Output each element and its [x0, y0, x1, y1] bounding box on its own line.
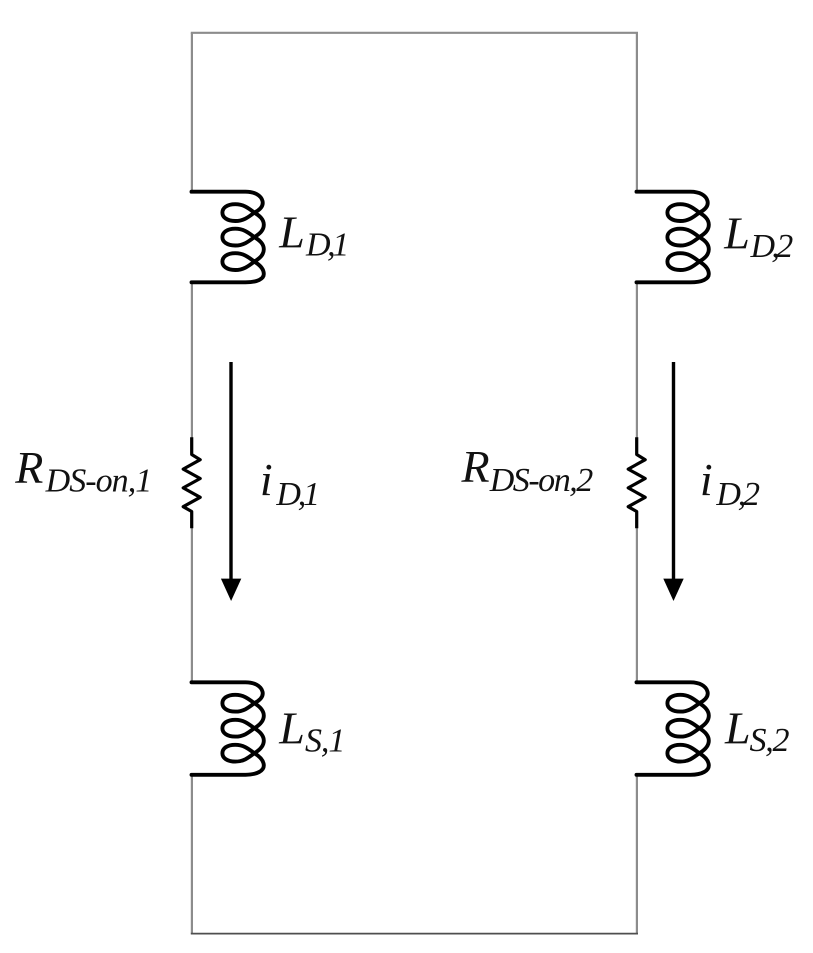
wire: left branch, top segment — [191, 33, 193, 192]
wire: right branch, bottom segment — [636, 774, 638, 933]
svg-text:LS,1: LS,1 — [278, 703, 344, 760]
inductor L_S,1 — [192, 682, 264, 775]
inductor L_S,2 — [637, 682, 709, 775]
inductor L_D,2 — [637, 192, 709, 283]
current arrow i_D,1 — [221, 362, 241, 601]
svg-text:RDS-on,1: RDS-on,1 — [14, 442, 151, 500]
wire: left branch, bottom segment — [191, 774, 193, 933]
current arrow i_D,2 — [663, 362, 683, 601]
wire: right branch, resistor-to-inductor segment — [636, 527, 638, 683]
wire: right branch, top segment — [636, 33, 638, 192]
svg-text:LD,2: LD,2 — [723, 207, 793, 264]
wire: bottom bus — [191, 933, 638, 935]
svg-text:iD,2: iD,2 — [700, 454, 760, 513]
wire: left branch, inductor-to-resistor segment — [191, 282, 193, 439]
wire: left branch, resistor-to-inductor segment — [191, 527, 193, 683]
resistor R_DS-on,2 — [628, 437, 645, 528]
wire: top bus — [191, 32, 638, 34]
svg-text:LS,2: LS,2 — [724, 702, 789, 759]
resistor R_DS-on,1 — [183, 437, 200, 528]
svg-text:LD,1: LD,1 — [278, 207, 346, 264]
svg-text:RDS-on,2: RDS-on,2 — [461, 441, 594, 499]
wire: right branch, inductor-to-resistor segment — [636, 282, 638, 439]
inductor L_D,1 — [192, 192, 264, 283]
svg-text:iD,1: iD,1 — [260, 454, 317, 513]
